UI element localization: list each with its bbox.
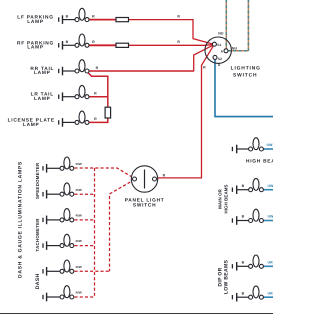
svg-text:LIGHTING: LIGHTING (231, 65, 261, 71)
svg-text:LAMP: LAMP (27, 45, 44, 51)
svg-text:HIGH BEAMS: HIGH BEAMS (223, 184, 228, 213)
svg-text:SPEEDOMETER: SPEEDOMETER (35, 162, 40, 199)
svg-text:NU: NU (232, 46, 238, 50)
svg-text:NU: NU (218, 31, 224, 35)
svg-text:R/W: R/W (76, 291, 82, 295)
svg-text:R: R (177, 14, 180, 18)
svg-text:R/W: R/W (76, 214, 82, 218)
svg-text:UW: UW (267, 143, 274, 147)
svg-text:S2: S2 (218, 57, 222, 61)
svg-text:LAMP: LAMP (34, 96, 51, 102)
svg-text:DASH: DASH (35, 274, 41, 290)
svg-text:R/W: R/W (76, 265, 82, 269)
svg-text:B: B (242, 215, 245, 219)
svg-text:HIGH BEAM: HIGH BEAM (246, 159, 273, 165)
svg-text:UR: UR (268, 261, 274, 265)
svg-text:B: B (242, 291, 245, 295)
svg-text:R: R (177, 40, 180, 44)
svg-text:SWITCH: SWITCH (233, 72, 257, 78)
svg-text:R: R (203, 66, 206, 70)
svg-text:R: R (96, 66, 99, 70)
svg-text:S1: S1 (217, 43, 221, 47)
svg-text:PANEL LIGHT: PANEL LIGHT (125, 197, 165, 203)
svg-text:R/W: R/W (76, 239, 82, 243)
svg-text:B: B (242, 261, 245, 265)
svg-text:R: R (94, 117, 97, 121)
svg-text:LOW BEAMS: LOW BEAMS (223, 260, 229, 295)
svg-text:LAMP: LAMP (27, 19, 44, 25)
svg-text:R/W: R/W (76, 162, 82, 166)
svg-text:UW: UW (268, 215, 274, 219)
svg-text:LAMP: LAMP (23, 122, 40, 128)
svg-text:DASH & GAUGE ILLUMINATION LAMP: DASH & GAUGE ILLUMINATION LAMPS (18, 161, 24, 278)
svg-text:UW: UW (268, 184, 274, 188)
svg-text:R: R (92, 40, 95, 44)
svg-text:R: R (94, 92, 97, 96)
svg-text:LAMP: LAMP (34, 70, 51, 76)
svg-text:SWITCH: SWITCH (133, 203, 156, 209)
svg-text:R/W: R/W (76, 188, 82, 192)
svg-text:B: B (66, 15, 69, 19)
svg-text:R: R (163, 174, 166, 178)
svg-text:MAIN OR: MAIN OR (218, 188, 223, 208)
svg-text:B: B (66, 40, 69, 44)
svg-text:B: B (242, 184, 245, 188)
svg-text:UR: UR (268, 291, 274, 295)
svg-text:R: R (92, 15, 95, 19)
svg-text:U: U (218, 63, 221, 67)
svg-text:TACHOMETER: TACHOMETER (35, 218, 40, 252)
